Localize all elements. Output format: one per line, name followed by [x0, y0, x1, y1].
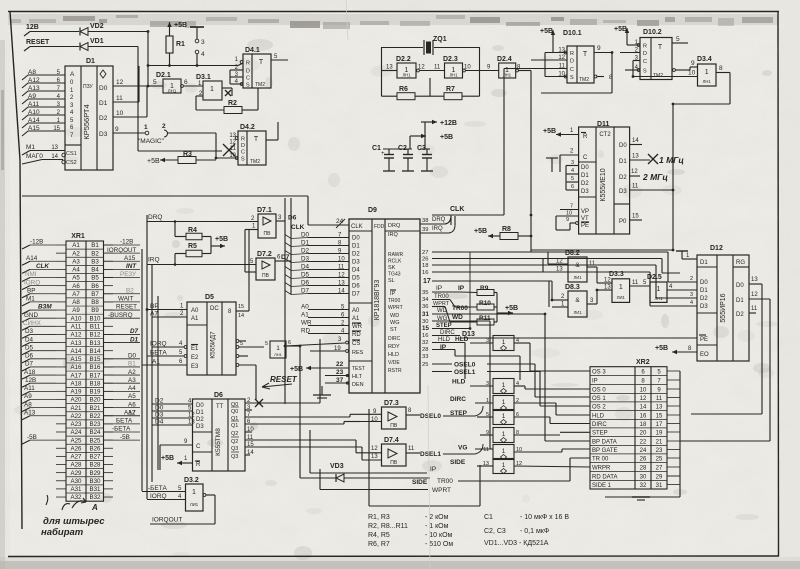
- resistor R7: [444, 86, 462, 100]
- ground (XR2): [632, 497, 650, 500]
- svg-text:A20: A20: [70, 397, 82, 404]
- svg-text:OS 3: OS 3: [592, 370, 606, 376]
- svg-text:RDY: RDY: [388, 344, 400, 350]
- wire XR2 loop a: [691, 413, 762, 415]
- wire D7.3 inputs: [360, 414, 382, 421]
- svg-text:11: 11: [408, 446, 415, 452]
- svg-text:R6, R7: R6, R7: [368, 541, 390, 548]
- svg-text:C3: C3: [417, 145, 426, 152]
- svg-text:A17: A17: [70, 372, 82, 379]
- svg-text:PE: PE: [581, 223, 589, 229]
- wire CLK net: [432, 69, 504, 225]
- svg-text:13: 13: [371, 454, 378, 460]
- svg-text:FDD: FDD: [374, 224, 385, 230]
- wire D12 out13: [749, 277, 762, 414]
- svg-text:+5В: +5В: [543, 128, 556, 135]
- svg-text:TG43: TG43: [388, 272, 401, 278]
- wire D5 E3: [142, 359, 187, 366]
- buffer D7.2: [250, 251, 275, 280]
- svg-text:TR00: TR00: [434, 294, 449, 300]
- wire CLK from D2.4: [518, 71, 531, 252]
- svg-text:R1, R3: R1, R3: [368, 514, 390, 521]
- svg-text:16: 16: [422, 333, 428, 339]
- svg-text:C: C: [570, 67, 574, 73]
- svg-text:D3: D3: [700, 304, 708, 310]
- svg-text:10: 10: [640, 388, 647, 394]
- wire D3.4 in2: [633, 70, 698, 77]
- svg-text:11: 11: [116, 95, 123, 102]
- svg-text:TR 00: TR 00: [592, 457, 609, 463]
- node +12V label: [26, 24, 39, 31]
- resistor R8: [500, 226, 531, 240]
- wire D9 TEST pin: [290, 361, 349, 373]
- gate D2.4: [497, 56, 521, 78]
- svg-text:23: 23: [656, 448, 663, 454]
- svg-text:1: 1: [502, 431, 506, 438]
- wire D9 ST pin: [422, 330, 460, 339]
- svg-text:A21: A21: [70, 405, 82, 412]
- wire D12 out11: [749, 306, 758, 313]
- svg-text:B9: B9: [91, 307, 99, 314]
- svg-text:R: R: [246, 61, 250, 67]
- wire inverter out to CS: [286, 340, 300, 478]
- svg-text:D3: D3: [619, 189, 627, 195]
- gate D3.4: [697, 56, 716, 86]
- svg-text:К555ТМ8: К555ТМ8: [215, 428, 222, 456]
- wire D10.1 inputs: [504, 53, 567, 77]
- svg-text:EO: EO: [700, 352, 709, 358]
- svg-text:RD: RD: [352, 332, 361, 338]
- svg-text:VD3: VD3: [330, 463, 344, 470]
- gate D3.1: [196, 74, 222, 110]
- wire D11 C input: [560, 149, 579, 173]
- svg-text:4: 4: [690, 300, 693, 306]
- svg-text:1: 1: [502, 448, 506, 455]
- svg-text:STEP: STEP: [450, 410, 468, 417]
- power +5V arrow (R8): [474, 228, 500, 238]
- svg-text:39: 39: [422, 227, 428, 233]
- svg-text:DIRC: DIRC: [450, 396, 466, 403]
- wires D9 read pins: [422, 250, 668, 276]
- svg-text:P0: P0: [619, 219, 627, 225]
- svg-text:+5В: +5В: [655, 345, 668, 352]
- svg-text:D12: D12: [710, 245, 723, 252]
- contact 3: [195, 39, 205, 46]
- decoder D5 (К555ИД7): [187, 294, 236, 375]
- svg-text:D1: D1: [581, 173, 589, 179]
- svg-text:9: 9: [115, 126, 119, 133]
- svg-text:B11: B11: [90, 324, 101, 331]
- svg-text:A9: A9: [72, 307, 80, 314]
- svg-text:10: 10: [566, 211, 572, 217]
- power +5V arrow (D11): [543, 128, 579, 137]
- svg-text:ПВ: ПВ: [262, 273, 270, 279]
- svg-text:11: 11: [632, 280, 639, 286]
- svg-text:OSEL0: OSEL0: [454, 362, 476, 369]
- svg-text:A19: A19: [70, 389, 82, 396]
- svg-text:WD: WD: [452, 314, 463, 321]
- scan noise band: [8, 14, 778, 29]
- diode VD2: [80, 23, 104, 36]
- wire D11 data inputs: [546, 158, 579, 190]
- svg-text:R2, R8...R11: R2, R8...R11: [368, 523, 408, 530]
- svg-text:IP: IP: [436, 285, 442, 292]
- gate D2.3: [443, 56, 471, 78]
- svg-text:10: 10: [688, 70, 696, 77]
- svg-text:ЛИ1: ЛИ1: [573, 275, 582, 280]
- wire DRQ: [147, 214, 258, 223]
- svg-text:9: 9: [597, 45, 601, 52]
- wire D9 DRQ out: [420, 216, 451, 224]
- svg-text:TR00: TR00: [437, 478, 453, 485]
- svg-text:ТМ2: ТМ2: [250, 159, 260, 165]
- svg-text:A2: A2: [72, 250, 80, 257]
- svg-text:S: S: [246, 83, 250, 89]
- counter D11 (К555ИЕ10): [579, 121, 630, 234]
- svg-text:27: 27: [422, 250, 428, 256]
- svg-text:2: 2: [690, 276, 693, 282]
- register D6 (К555ТМ8): [193, 392, 246, 471]
- svg-text:11: 11: [632, 184, 639, 190]
- svg-text:HLD: HLD: [455, 336, 469, 343]
- wire D13 g4: [480, 432, 590, 435]
- wire D7.1 out: [276, 215, 297, 222]
- svg-text:B10: B10: [89, 315, 101, 322]
- wire routing frame (D7 area): [369, 409, 480, 506]
- wire D2.1 out: [183, 85, 203, 87]
- svg-text:B23: B23: [89, 421, 101, 428]
- legend capacitors diodes: [484, 514, 569, 547]
- svg-text:RES: RES: [352, 350, 364, 356]
- svg-text:C: C: [583, 155, 588, 161]
- wire IP rail: [310, 430, 436, 473]
- wire D11 out 15: [630, 214, 642, 221]
- svg-text:- 1 кОм: - 1 кОм: [425, 523, 449, 530]
- wire junction dots: [146, 30, 675, 347]
- svg-text:IP: IP: [592, 379, 598, 385]
- svg-text:A: A: [70, 71, 75, 78]
- svg-text:D2: D2: [619, 175, 627, 181]
- wire D13 g6: [450, 459, 590, 467]
- svg-text:B8: B8: [91, 299, 99, 306]
- svg-text:D10.1: D10.1: [563, 30, 582, 37]
- svg-text:набират: набират: [41, 527, 84, 538]
- svg-text:12: 12: [631, 169, 638, 175]
- wire D13 g1: [452, 379, 590, 390]
- svg-text:D2: D2: [352, 252, 360, 258]
- svg-text:6: 6: [571, 184, 574, 190]
- svg-text:Q2: Q2: [231, 439, 238, 445]
- svg-text:15: 15: [238, 304, 244, 310]
- wire D9 RDY pin: [422, 344, 520, 380]
- wire D9 CS pin: [285, 337, 348, 346]
- buffer D7.3: [371, 400, 406, 429]
- svg-text:11: 11: [434, 65, 441, 71]
- svg-text:TEST: TEST: [352, 366, 365, 372]
- svg-text:WPRT: WPRT: [433, 301, 450, 307]
- ground (below D9): [313, 386, 331, 398]
- power +5V arrow (D10.2): [614, 26, 629, 45]
- svg-text:A1: A1: [191, 316, 199, 322]
- resistor R5: [175, 243, 202, 265]
- svg-text:+5В: +5В: [474, 228, 487, 235]
- svg-text:D7: D7: [352, 292, 360, 298]
- svg-text:RSTR: RSTR: [388, 368, 402, 374]
- svg-text:4: 4: [201, 51, 205, 58]
- svg-text:3: 3: [690, 292, 693, 298]
- svg-text:XR1: XR1: [71, 233, 85, 240]
- svg-text:D: D: [570, 59, 574, 65]
- svg-text:R: R: [583, 134, 588, 140]
- svg-text:CLK: CLK: [291, 224, 305, 231]
- svg-text:D0: D0: [619, 143, 627, 149]
- svg-text:IP: IP: [430, 466, 436, 473]
- wire D5 out rows: [236, 340, 264, 400]
- svg-text:B7: B7: [91, 291, 99, 298]
- svg-text:8: 8: [609, 74, 613, 81]
- svg-text:R2: R2: [228, 100, 237, 107]
- wires D1 address inputs: [22, 69, 65, 136]
- svg-text:SL: SL: [388, 278, 395, 284]
- wires XR1 right signals: [104, 239, 141, 441]
- svg-text:A23: A23: [70, 421, 82, 428]
- svg-text:3: 3: [571, 160, 574, 166]
- svg-text:CS2: CS2: [66, 160, 77, 166]
- svg-text:D7.2: D7.2: [257, 251, 272, 258]
- svg-text:К555ИЕ10: К555ИЕ10: [600, 168, 607, 201]
- svg-text:14: 14: [632, 138, 639, 144]
- svg-text:B19: B19: [89, 389, 101, 396]
- svg-text:A25: A25: [70, 437, 82, 444]
- power +5V arrow (R9-R11): [497, 293, 518, 323]
- svg-text:IRQ: IRQ: [148, 257, 160, 264]
- svg-text:C2, C3: C2, C3: [484, 528, 506, 535]
- wire D9 DEN pin: [325, 377, 349, 384]
- svg-text:ВР DATA: ВР DATA: [592, 440, 617, 446]
- svg-text:Q3: Q3: [231, 446, 238, 452]
- svg-text:DC: DC: [210, 306, 219, 312]
- svg-text:B25: B25: [89, 437, 101, 444]
- svg-text:R: R: [241, 137, 245, 143]
- svg-text:A5: A5: [72, 275, 80, 282]
- svg-text:10: 10: [371, 417, 378, 423]
- svg-text:28: 28: [640, 466, 647, 472]
- svg-text:19: 19: [656, 431, 663, 437]
- svg-text:D2: D2: [581, 181, 589, 187]
- svg-text:B6: B6: [91, 283, 99, 290]
- svg-text:TR00: TR00: [388, 298, 400, 304]
- svg-text:А1: А1: [352, 316, 360, 322]
- svg-text:A16: A16: [70, 364, 82, 371]
- svg-text:B28: B28: [89, 462, 101, 469]
- svg-text:26: 26: [640, 457, 647, 463]
- wire osc loop: [382, 48, 480, 97]
- svg-text:SK: SK: [388, 265, 396, 271]
- wire D13 g3: [450, 410, 590, 424]
- svg-text:RG: RG: [736, 260, 745, 266]
- svg-text:31: 31: [656, 483, 663, 489]
- wire WPRT rail: [320, 469, 451, 494]
- svg-text:ЛН1: ЛН1: [449, 73, 458, 78]
- svg-text:12В: 12В: [26, 24, 39, 31]
- svg-text:B3: B3: [91, 258, 99, 265]
- IC D9 (КР1818ВГ93 FDC): [349, 207, 420, 393]
- svg-text:ЛН1: ЛН1: [703, 79, 712, 84]
- svg-text:- 2 кОм: - 2 кОм: [425, 514, 449, 521]
- svg-text:B13: B13: [89, 340, 101, 347]
- svg-text:A4: A4: [72, 267, 80, 274]
- svg-text:+5В: +5В: [540, 28, 553, 35]
- wire D7.2 out: [275, 254, 291, 261]
- svg-text:11: 11: [589, 261, 596, 267]
- svg-text:16: 16: [640, 414, 647, 420]
- svg-text:T: T: [658, 44, 663, 51]
- wires D12 inputs: [650, 252, 697, 306]
- svg-text:15: 15: [422, 325, 429, 332]
- svg-text:D7.4: D7.4: [384, 437, 399, 444]
- svg-text:WG: WG: [437, 316, 448, 322]
- svg-text:D4: D4: [352, 268, 360, 274]
- svg-text:DIRC: DIRC: [388, 336, 401, 342]
- svg-text:- 10 кОм: - 10 кОм: [425, 532, 453, 539]
- svg-text:D1: D1: [700, 288, 708, 294]
- svg-text:E1: E1: [191, 346, 199, 352]
- register D12 (К555ИР16): [697, 245, 749, 361]
- svg-text:24: 24: [640, 448, 647, 454]
- svg-text:XR2: XR2: [636, 359, 650, 366]
- svg-text:A14: A14: [70, 348, 82, 355]
- capacitors C1 C2 C3: [372, 145, 433, 171]
- svg-text:17: 17: [423, 278, 431, 285]
- wire MAGIC: [167, 133, 238, 158]
- svg-text:D3.3: D3.3: [609, 271, 624, 278]
- svg-text:D2.2: D2.2: [396, 56, 411, 63]
- gate D5-inverter: [265, 341, 286, 358]
- svg-text:A12: A12: [70, 332, 82, 339]
- svg-text:A6: A6: [72, 283, 80, 290]
- svg-text:1: 1: [192, 489, 196, 496]
- svg-text:WR: WR: [352, 324, 363, 330]
- svg-text:STEP: STEP: [436, 323, 452, 329]
- svg-text:12: 12: [371, 446, 378, 452]
- buffer D7.4: [371, 437, 406, 466]
- diode VD1: [80, 38, 104, 51]
- svg-text:12: 12: [604, 278, 611, 284]
- svg-text:ПВ: ПВ: [390, 423, 398, 429]
- wire D6 R input: [161, 455, 193, 465]
- wire D3.1 out: [222, 88, 232, 96]
- svg-text:КР556РТ4: КР556РТ4: [82, 104, 91, 139]
- wires D1 chip-select inputs: [22, 144, 66, 164]
- svg-text:R6: R6: [399, 86, 408, 93]
- svg-text:- 510 Ом: - 510 Ом: [425, 541, 453, 548]
- svg-text:18: 18: [422, 263, 428, 269]
- svg-text:DSEL0: DSEL0: [420, 413, 441, 420]
- svg-text:A0: A0: [191, 308, 199, 314]
- svg-text:D7.1: D7.1: [257, 207, 272, 214]
- svg-text:+5В: +5В: [147, 158, 160, 165]
- svg-text:D0: D0: [700, 280, 708, 286]
- svg-text:17: 17: [656, 422, 663, 428]
- svg-text:HLD: HLD: [452, 379, 466, 386]
- svg-text:ЛИ1: ЛИ1: [617, 295, 626, 300]
- svg-text:ПВ: ПВ: [264, 231, 272, 237]
- wire D9 TR00 pin: [422, 294, 477, 312]
- wire D8.3 out: [587, 290, 612, 304]
- svg-text:WPRT: WPRT: [388, 305, 403, 311]
- svg-text:D0: D0: [581, 165, 589, 171]
- svg-text:38: 38: [422, 218, 428, 224]
- resistor R11: [477, 315, 497, 325]
- svg-text:ST: ST: [390, 327, 398, 333]
- svg-text:B30: B30: [89, 478, 101, 485]
- wire D3.3 out: [630, 280, 650, 286]
- svg-text:B31: B31: [89, 486, 101, 493]
- border frame right: [777, 12, 780, 557]
- svg-text:ЛН1: ЛН1: [402, 73, 411, 78]
- svg-text:12: 12: [229, 140, 236, 146]
- wire D10.2 Q out: [673, 36, 689, 43]
- resistor R1: [166, 36, 185, 66]
- wire D9 HLD pin: [422, 354, 476, 376]
- svg-text:D4.2: D4.2: [240, 124, 255, 131]
- svg-text:RESET: RESET: [270, 375, 298, 384]
- svg-text:+5В: +5В: [161, 455, 174, 462]
- svg-text:SIDE: SIDE: [450, 459, 466, 466]
- svg-text:25: 25: [656, 457, 663, 463]
- svg-text:A15: A15: [70, 356, 82, 363]
- svg-text:D0: D0: [352, 236, 360, 242]
- svg-text:D7.3: D7.3: [384, 400, 399, 407]
- svg-text:CS: CS: [352, 341, 360, 347]
- svg-text:1: 1: [705, 69, 709, 76]
- wire D4.1 pins: [230, 70, 243, 84]
- svg-text:A22: A22: [70, 413, 82, 420]
- svg-text:R4, R5: R4, R5: [368, 532, 390, 539]
- svg-text:D2.4: D2.4: [497, 56, 512, 63]
- wire D3.2 in1: [142, 485, 186, 492]
- svg-text:1: 1: [144, 124, 148, 131]
- legend resistors: [368, 514, 453, 548]
- wire RESET: [24, 47, 79, 52]
- wire D8.2 out: [587, 261, 612, 283]
- svg-text:D: D: [643, 51, 647, 57]
- flip-flop D10.2: [635, 29, 672, 80]
- svg-text:T: T: [583, 51, 588, 58]
- svg-text:IORQOUT: IORQOUT: [152, 517, 182, 524]
- wire D9 RES pin: [310, 346, 348, 352]
- gate D8.2: [556, 250, 587, 282]
- svg-text:A8: A8: [72, 299, 80, 306]
- svg-text:13: 13: [386, 65, 393, 71]
- svg-text:D0: D0: [99, 85, 108, 92]
- power +12V arrow: [421, 120, 457, 127]
- svg-text:4: 4: [571, 168, 574, 174]
- svg-text:B16: B16: [89, 364, 101, 371]
- svg-text:555ИР16: 555ИР16: [720, 293, 727, 322]
- wire IRQ: [147, 257, 256, 266]
- svg-text:1 МГц: 1 МГц: [659, 155, 684, 165]
- svg-text:OS 0: OS 0: [592, 388, 606, 394]
- svg-text:STEP: STEP: [592, 431, 608, 437]
- svg-text:DRQ: DRQ: [388, 223, 401, 229]
- wires D9 register pins: [301, 303, 349, 334]
- svg-text:C2: C2: [398, 145, 407, 152]
- svg-text:WPRT: WPRT: [432, 487, 451, 494]
- wire D9 WG pin: [422, 316, 493, 449]
- svg-text:11: 11: [483, 447, 489, 453]
- svg-text:31: 31: [422, 311, 429, 318]
